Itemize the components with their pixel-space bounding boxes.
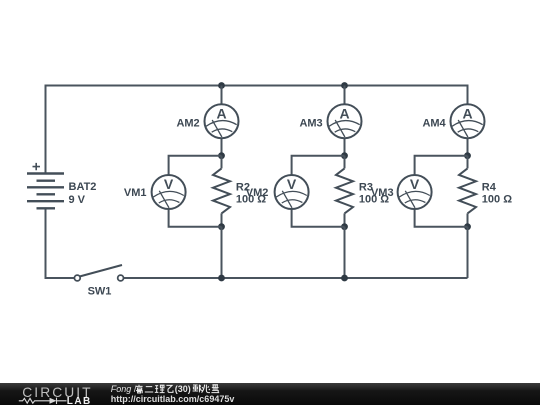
- svg-text:AM2: AM2: [176, 117, 199, 129]
- svg-text:VM3: VM3: [371, 187, 394, 199]
- ammeter AM4: [451, 104, 485, 138]
- svg-text:A: A: [216, 105, 226, 121]
- wire branch2 resistor top lead: [344, 156, 346, 169]
- resistor R3: [336, 168, 353, 213]
- footer cjk 2: [193, 385, 220, 393]
- node branch3 upper: [464, 152, 471, 159]
- wire voltmeter VM1 loop: [169, 156, 222, 227]
- svg-text:V: V: [164, 176, 174, 192]
- svg-text:AM4: AM4: [422, 117, 446, 129]
- logo resistor zigzag and diode: [19, 398, 67, 404]
- voltmeter VM1: [152, 175, 186, 209]
- wire branch1 resistor top lead: [221, 156, 223, 169]
- svg-text:V: V: [287, 176, 297, 192]
- node branch1 upper: [218, 152, 225, 159]
- node bottom rail branch2: [341, 275, 348, 282]
- node bottom rail branch1: [218, 275, 225, 282]
- svg-text:http://circuitlab.com/c69475v: http://circuitlab.com/c69475v: [111, 394, 235, 404]
- svg-text:9 V: 9 V: [69, 194, 86, 206]
- wire bottom rail: [124, 277, 468, 279]
- voltmeter VM2: [275, 175, 309, 209]
- svg-text:VM2: VM2: [246, 187, 269, 199]
- svg-text:Fong /: Fong /: [111, 384, 137, 394]
- wire branch1 resistor bottom lead: [221, 213, 223, 226]
- svg-text:SW1: SW1: [88, 286, 112, 298]
- wire left vertical (battery top lead): [45, 85, 47, 174]
- node top rail branch1: [218, 82, 225, 89]
- voltmeter VM3: [398, 175, 432, 209]
- svg-text:A: A: [462, 105, 472, 121]
- wire branch1 ammeter leads: [221, 86, 223, 156]
- node branch1 lower: [218, 223, 225, 230]
- svg-text:BAT2: BAT2: [69, 181, 97, 193]
- wire branch2 resistor bottom lead: [344, 213, 346, 226]
- battery BAT2: [27, 163, 64, 208]
- footer cjk 1: [136, 385, 173, 393]
- svg-text:(30): (30): [175, 384, 191, 394]
- svg-text:AM3: AM3: [299, 117, 322, 129]
- wire branch2 to bottom rail: [344, 227, 346, 278]
- svg-text:100 Ω: 100 Ω: [482, 194, 512, 206]
- wire branch3 ammeter leads: [467, 85, 469, 156]
- ammeter AM3: [328, 104, 362, 138]
- svg-text:VM1: VM1: [124, 187, 147, 199]
- wire branch1 to bottom rail: [221, 227, 223, 278]
- wire branch3 to bottom rail: [467, 227, 469, 278]
- wire top rail: [46, 85, 468, 87]
- node branch2 lower: [341, 223, 348, 230]
- resistor R2: [213, 168, 230, 213]
- ammeter AM2: [205, 104, 239, 138]
- node branch3 lower: [464, 223, 471, 230]
- svg-text:LAB: LAB: [67, 396, 92, 405]
- wire branch3 resistor bottom lead: [467, 213, 469, 226]
- wire voltmeter VM2 loop: [292, 156, 345, 227]
- logo diode triangle: [50, 398, 57, 404]
- svg-text:R4: R4: [482, 182, 497, 194]
- node branch2 upper: [341, 152, 348, 159]
- svg-text:A: A: [339, 105, 349, 121]
- wire branch2 ammeter leads: [344, 86, 346, 156]
- node top rail branch2: [341, 82, 348, 89]
- resistor R4: [459, 168, 476, 213]
- footer bar: [0, 383, 540, 405]
- wire branch3 resistor top lead: [467, 156, 469, 169]
- wire voltmeter VM3 loop: [415, 156, 468, 227]
- svg-text:V: V: [410, 176, 420, 192]
- switch SW1: [74, 265, 123, 281]
- wire left vertical (battery bottom lead): [46, 208, 75, 278]
